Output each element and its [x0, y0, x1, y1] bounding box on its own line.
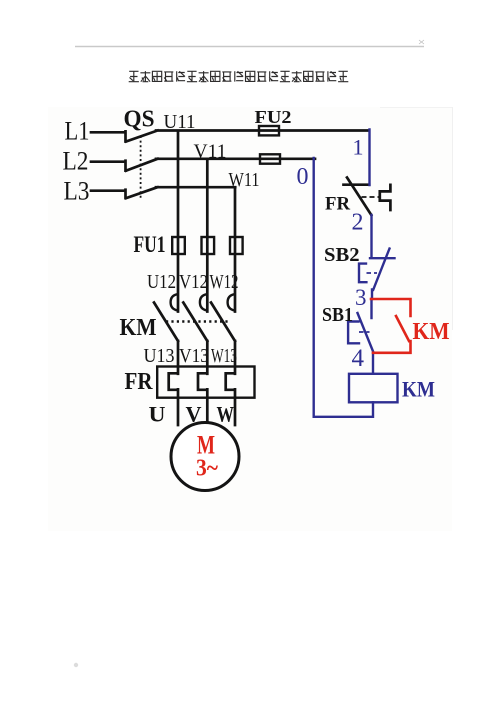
svg-text:W12: W12: [210, 271, 239, 293]
svg-text:U11: U11: [164, 111, 196, 133]
svg-text:FR: FR: [325, 194, 350, 215]
svg-text:V11: V11: [194, 141, 227, 163]
svg-text:SB1: SB1: [322, 304, 353, 326]
svg-text:W13: W13: [211, 345, 237, 367]
svg-text:U13: U13: [144, 345, 175, 367]
svg-text:0: 0: [297, 164, 309, 190]
svg-text:V12: V12: [179, 271, 208, 293]
svg-text:QS: QS: [124, 107, 155, 133]
svg-text:3~: 3~: [196, 456, 218, 482]
svg-text:4: 4: [352, 345, 365, 372]
svg-text:2: 2: [352, 210, 364, 236]
svg-text:FR: FR: [125, 369, 154, 395]
svg-text:U: U: [149, 402, 166, 427]
svg-text:1: 1: [353, 135, 364, 160]
svg-text:KM: KM: [120, 315, 157, 341]
svg-text:FU1: FU1: [134, 232, 166, 257]
svg-text:W11: W11: [229, 169, 260, 191]
svg-text:L3: L3: [64, 177, 90, 206]
svg-text:V13: V13: [179, 345, 209, 367]
svg-text:U12: U12: [147, 271, 176, 293]
svg-text:KM: KM: [413, 319, 450, 345]
svg-text:SB2: SB2: [324, 244, 360, 266]
svg-text:KM: KM: [402, 377, 435, 402]
svg-text:3: 3: [355, 285, 367, 310]
svg-text:FU2: FU2: [255, 107, 292, 127]
svg-text:L1: L1: [65, 117, 90, 146]
svg-text:V: V: [186, 402, 202, 427]
svg-text:L2: L2: [63, 147, 89, 176]
svg-text:W: W: [217, 402, 235, 427]
